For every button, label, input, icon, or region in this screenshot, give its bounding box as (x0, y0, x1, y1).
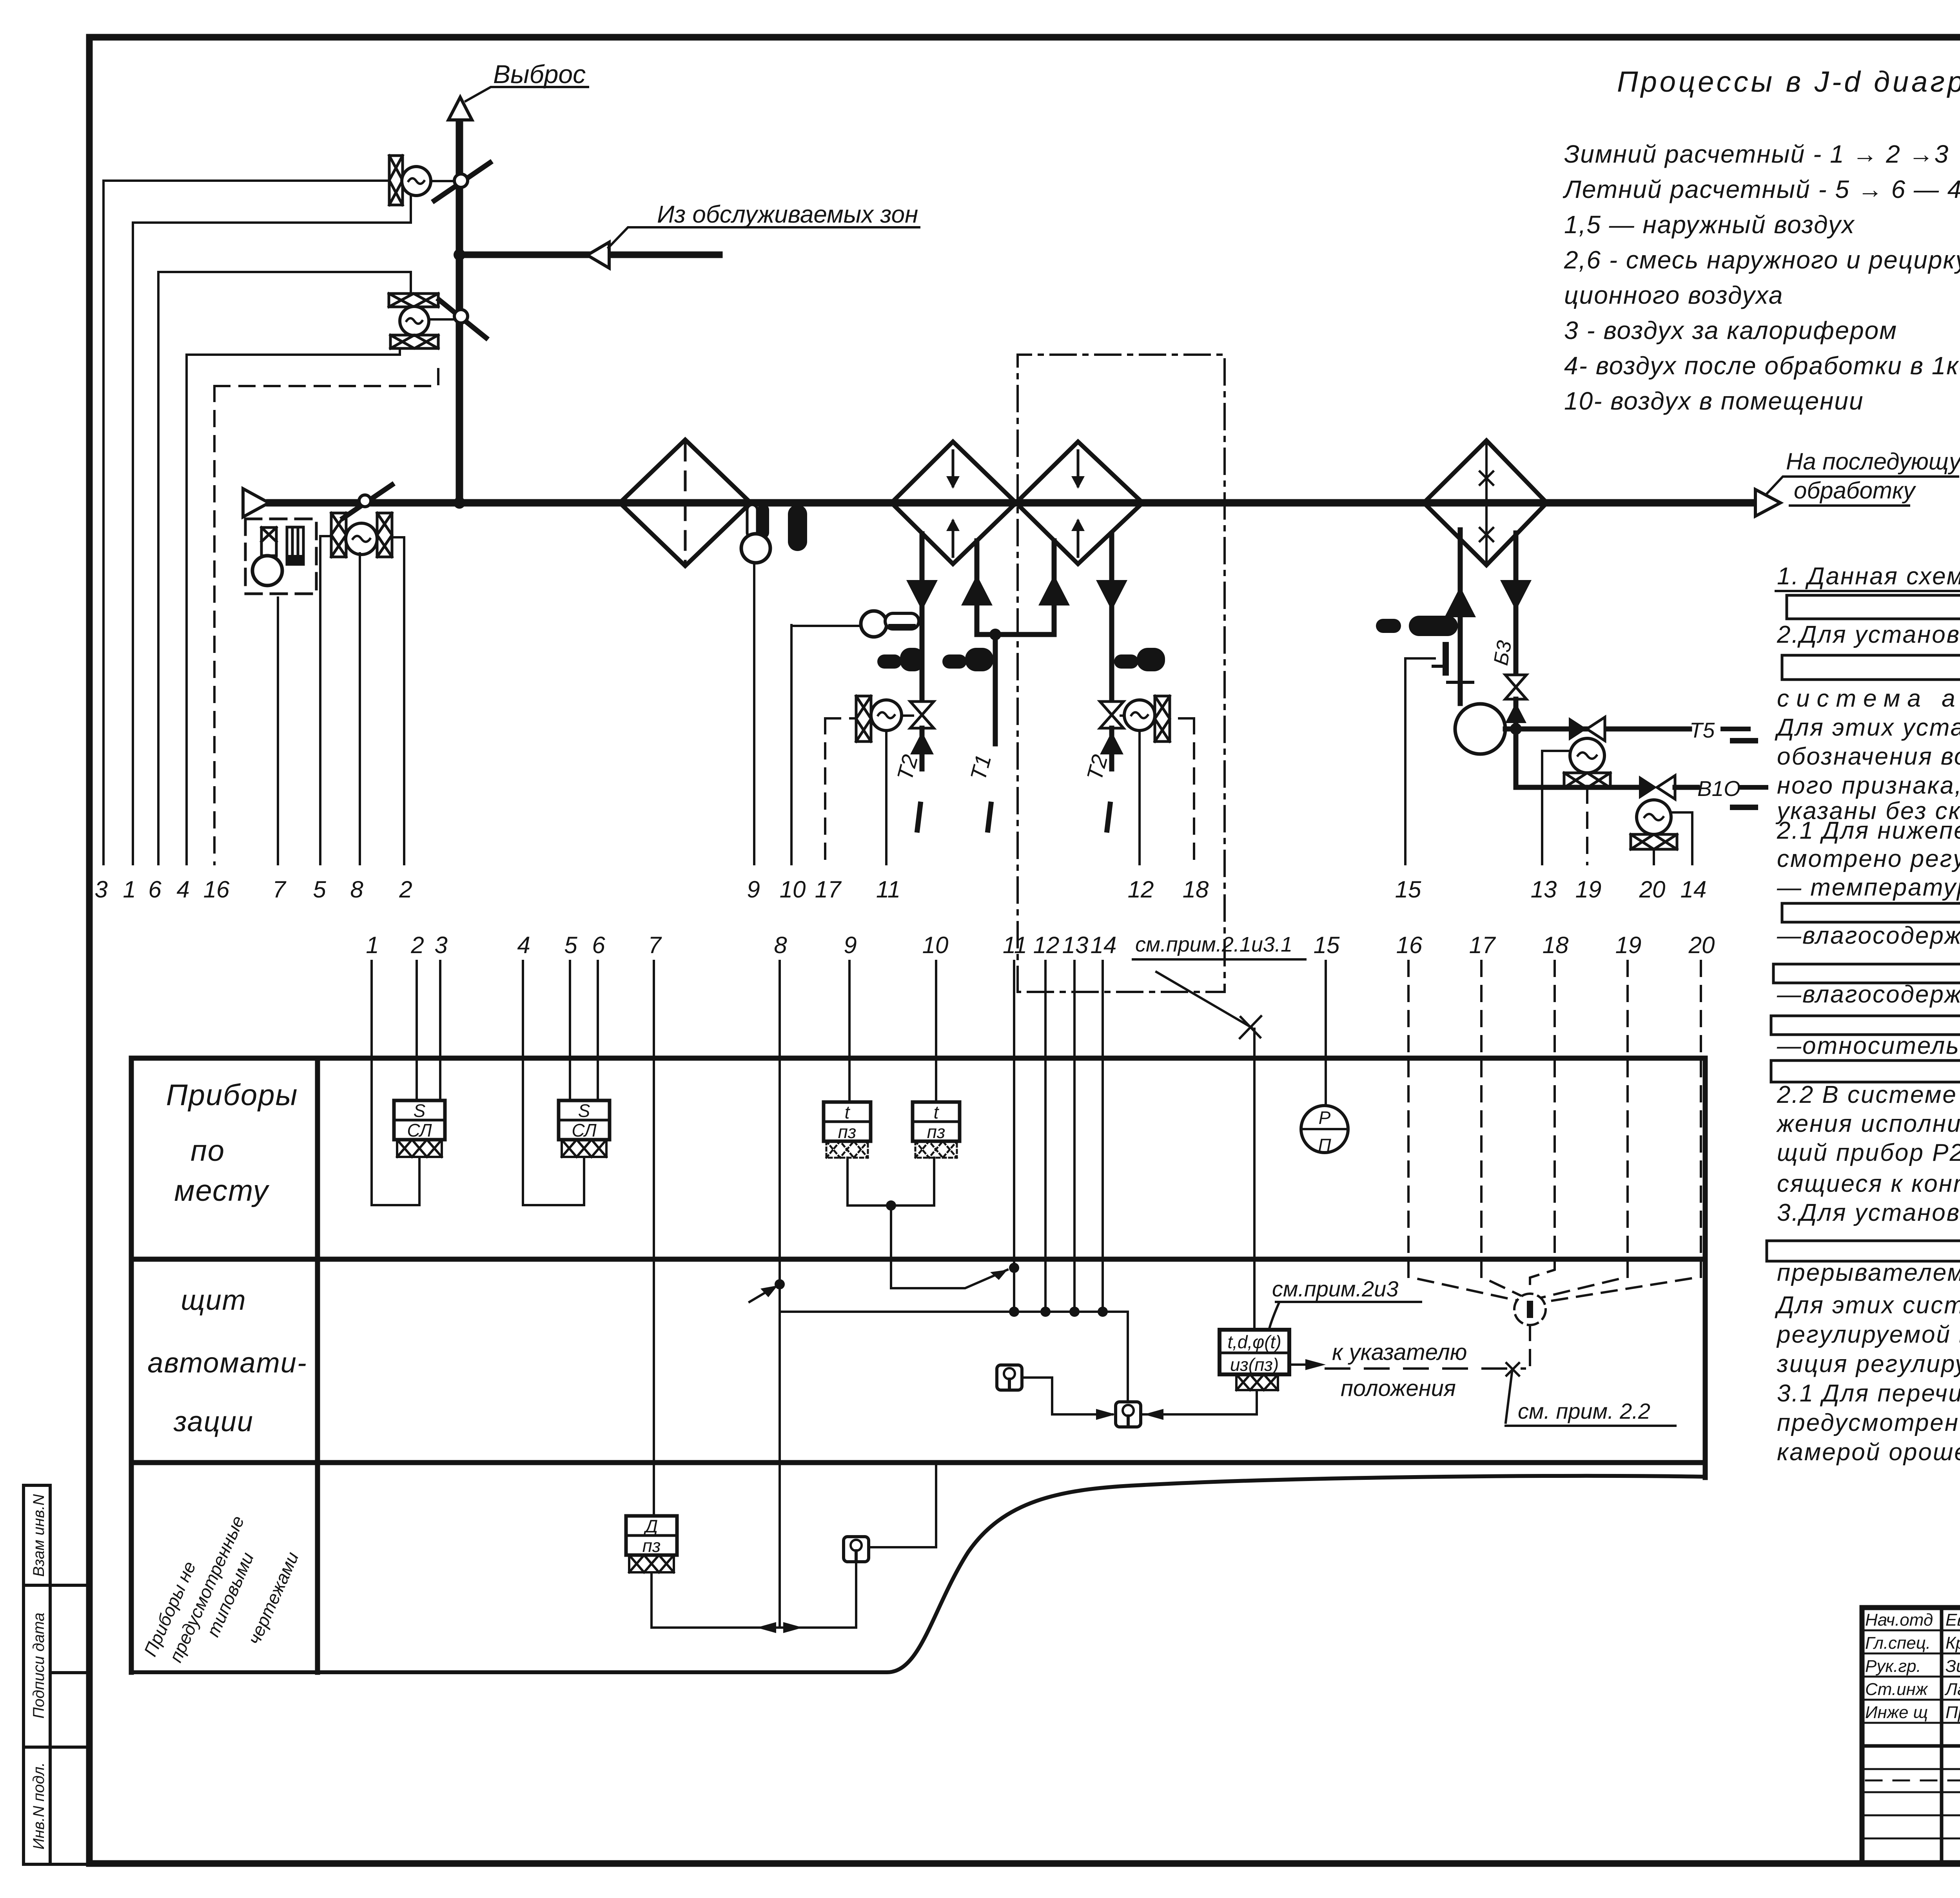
thermometer T9 tube outline (747, 505, 757, 538)
redaction box row3 (1771, 1016, 1960, 1035)
pipe A2 return (975, 541, 980, 634)
svg-text:6: 6 (148, 876, 162, 903)
wire leader 10 (790, 625, 793, 864)
leader 20 dashed (1653, 849, 1655, 864)
svg-text:Т2: Т2 (1082, 752, 1112, 783)
svg-text:СЛ: СЛ (572, 1120, 597, 1140)
svg-text:обозначения возможных регули: обозначения возможных регулируемых велич… (1777, 743, 1960, 770)
svg-text:—относительной влажности в о: —относительной влажности в обслуживаемой… (1777, 1032, 1960, 1059)
wire line 17 dashed (1481, 961, 1523, 1296)
svg-text:10- воздух в помещении: 10- воздух в помещении (1564, 387, 1864, 415)
pipe A3 return (1109, 534, 1114, 705)
pipe A3 supply (1052, 541, 1057, 634)
svg-text:10: 10 (922, 932, 949, 958)
svg-text:4: 4 (176, 876, 189, 903)
svg-text:Р: Р (1319, 1108, 1331, 1128)
svg-text:— температуры воздуха за кам: — температуры воздуха за камерой орошени… (1777, 874, 1960, 901)
svg-text:Кростошевский: Кростошевский (1945, 1633, 1960, 1653)
node pump junction (1510, 723, 1522, 735)
wire leader 5 elbow (320, 536, 331, 864)
svg-text:t: t (845, 1102, 851, 1122)
actuator M-B10 crossbox (1631, 834, 1677, 849)
svg-text:18: 18 (1183, 876, 1209, 903)
wire to leader 6 (158, 272, 411, 294)
wire to leader 10 (791, 625, 861, 627)
svg-text:см.прим.2.1и3.1: см.прим.2.1и3.1 (1135, 933, 1292, 956)
note underline 1 (1776, 590, 1960, 592)
exhaust duct vertical (456, 120, 463, 503)
svg-text:16: 16 (1396, 932, 1423, 958)
wire to leader 4 (187, 348, 400, 355)
left stamp column labels (30, 1494, 47, 1850)
regulator labels (1227, 1332, 1281, 1375)
bus in panel row (775, 1279, 785, 1289)
svg-text:t,d,φ(t): t,d,φ(t) (1227, 1332, 1281, 1352)
svg-text:На последующую: На последующую (1786, 448, 1960, 475)
svg-text:автомати-: автомати- (147, 1347, 307, 1379)
leader 18 dashed (1170, 718, 1194, 864)
svg-text:19: 19 (1615, 932, 1642, 958)
wire leader 13 (1541, 751, 1543, 864)
svg-text:—влагосодержания за камерой: —влагосодержания за камерой орошения , у… (1777, 922, 1960, 949)
recirculation inlet wire (459, 252, 719, 258)
svg-text:обработку: обработку (1794, 477, 1916, 504)
svg-text:6: 6 (592, 932, 605, 958)
svg-text:3.1 Для перечисленных в п: 3.1 Для перечисленных в пункте 3 систем … (1777, 1380, 1960, 1407)
fan F1 motor circle (346, 523, 377, 555)
svg-text:11: 11 (1003, 932, 1027, 958)
wire S3 right (869, 1466, 936, 1547)
svg-text:предусмотрено регулирование: предусмотрено регулирование температуры … (1777, 1409, 1960, 1436)
wire line 9 (848, 961, 851, 1102)
heater A3 spray arrows (1077, 451, 1080, 557)
svg-text:Рук.гр.: Рук.гр. (1865, 1657, 1921, 1676)
pipe T5 (1516, 727, 1690, 732)
svg-text:камерой орошения. Позиция д: камерой орошения. Позиция датчика (1777, 1439, 1960, 1466)
sensor bulbs filled (900, 648, 924, 671)
svg-text:по: по (191, 1134, 225, 1167)
label leader (1766, 477, 1958, 495)
air intake arrow (243, 489, 269, 517)
pump circle (1455, 704, 1505, 754)
svg-text:15: 15 (1395, 876, 1421, 903)
label Выброс leader (466, 87, 588, 101)
wire leader 1 (132, 223, 134, 864)
legend lines (1563, 140, 1960, 415)
svg-text:5: 5 (313, 876, 326, 903)
svg-text:ного признака, а также позиц: ного признака, а также позиция регулирую… (1777, 772, 1960, 799)
pipe T1 header (977, 634, 1054, 744)
wire line 18 dashed (1530, 961, 1555, 1294)
svg-text:регулируемой величины и фун: регулируемой величины и функционального … (1776, 1321, 1960, 1348)
filter A1 center dashed (684, 442, 687, 564)
damper D-ex1 slash (434, 163, 490, 201)
svg-text:жения исполнительных механиз: жения исполнительных механизмов по встро… (1776, 1110, 1960, 1137)
svg-text:Выброс: Выброс (493, 60, 586, 89)
title block frame (1862, 1608, 1960, 1864)
sensor bulb filled (1409, 616, 1458, 636)
actuator square S2 (1116, 1402, 1141, 1427)
node duct junction (454, 497, 465, 509)
svg-text:S: S (414, 1100, 426, 1121)
sensor element filled (287, 527, 303, 564)
leader numbers row1 (94, 876, 1706, 903)
control valve V1 bowtie (910, 702, 934, 728)
svg-text:4: 4 (517, 932, 530, 958)
instrument D/pz box row3 (626, 1516, 677, 1555)
svg-text:см. прим. 2.2: см. прим. 2.2 (1518, 1399, 1650, 1423)
wire line 2 (416, 961, 418, 1100)
gauge P1 circle (252, 556, 282, 586)
svg-text:Т1: Т1 (965, 752, 996, 783)
svg-text:2: 2 (410, 932, 424, 958)
fan F1 crossed box left (331, 513, 346, 557)
intake damper slash (343, 485, 392, 518)
svg-text:Т5: Т5 (1690, 718, 1715, 742)
svg-text:Лазаренко: Лазаренко (1944, 1680, 1960, 1699)
svg-text:см.прим.2и3: см.прим.2и3 (1272, 1276, 1398, 1301)
inlet arrow from served zones (587, 242, 609, 268)
wire line 3 (439, 961, 441, 1100)
heater A2 spray arrows (952, 451, 955, 557)
pipe A2 supply (920, 534, 925, 705)
actuator square S3 (844, 1537, 869, 1562)
svg-text:15: 15 (1314, 932, 1340, 958)
svg-text:2,6 - смесь наружного и рецирк: 2,6 - смесь наружного и рециркуля- (1564, 246, 1960, 274)
svg-text:из(пз): из(пз) (1230, 1354, 1279, 1375)
svg-text:пз: пз (838, 1122, 857, 1142)
sensor bulb filled (788, 505, 807, 551)
leader 17 dashed (825, 718, 856, 864)
left stamp column (24, 1485, 89, 1864)
valve B3 bowtie (1505, 675, 1526, 699)
wire line 1 to box (372, 961, 419, 1205)
filter diamond A1 (620, 440, 751, 566)
actuator M-T5 crossbox (1564, 773, 1610, 788)
regulator output arrow (1289, 1363, 1305, 1366)
wire line 15 (1325, 961, 1327, 1106)
heater diamond A2 (891, 442, 1016, 564)
svg-text:1: 1 (366, 932, 379, 958)
redaction box A (1787, 595, 1960, 619)
wire line 5 (569, 961, 571, 1100)
svg-text:В1О: В1О (1697, 776, 1740, 801)
regulator box (1220, 1330, 1289, 1374)
fan actuator M1 motor circle (402, 167, 431, 196)
valve arrow down (906, 580, 938, 611)
svg-text:смотрено регулирование следу: смотрено регулирование следующих парамет… (1777, 845, 1960, 872)
svg-text:Из обслуживаемых зон: Из обслуживаемых зон (657, 201, 918, 228)
svg-text:зиция регулирующего прибора: зиция регулирующего прибора указаны в ск… (1777, 1351, 1960, 1378)
outlet arrow to processing (1755, 489, 1780, 516)
svg-text:Взам инв.N: Взам инв.N (30, 1494, 47, 1577)
svg-text:1: 1 (123, 876, 136, 903)
wire to leader 1 (133, 196, 411, 223)
gauge R/P circle (1301, 1106, 1348, 1153)
svg-text:13: 13 (1531, 876, 1557, 903)
redaction box row2 (1773, 964, 1960, 983)
actuator cluster right motor (1121, 714, 1132, 717)
actuator M2 crossed box lower (390, 335, 438, 348)
svg-text:СЛ: СЛ (407, 1120, 432, 1140)
row label Щит автоматизации (147, 1285, 307, 1438)
svg-text:3: 3 (94, 876, 107, 903)
wire leader 6 (157, 272, 160, 864)
instrument t/pz box3 (824, 1102, 871, 1141)
svg-text:Д: Д (643, 1516, 658, 1536)
svg-text:19: 19 (1575, 876, 1602, 903)
instrument letters row3 (642, 1516, 661, 1556)
svg-text:8: 8 (774, 932, 787, 958)
svg-text:7: 7 (272, 876, 287, 903)
table frame (131, 1056, 1705, 1061)
wire leader 2 elbow (392, 537, 404, 864)
exhaust outlet arrow (448, 97, 472, 120)
svg-text:3: 3 (434, 932, 447, 958)
actuator M2 crossed box upper (389, 294, 438, 307)
svg-text:прерывателем— система автома: прерывателем— система автоматизации 2 кл… (1777, 1259, 1960, 1286)
wire line 4 to box (523, 961, 584, 1205)
wire line 11 (1013, 961, 1015, 1312)
svg-text:П: П (1318, 1135, 1331, 1155)
redaction box row4 (1771, 1060, 1960, 1082)
A4 center line with x marks (1485, 443, 1488, 563)
sensor element hatched (261, 528, 276, 556)
wire line 19 dashed (1540, 961, 1628, 1298)
svg-text:Летний расчетный - 5 → 6 — 4: Летний расчетный - 5 → 6 — 4 (1563, 175, 1960, 203)
node junction exhaust/recirc (454, 249, 465, 261)
svg-text:3 - воздух за калорифером: 3 - воздух за калорифером (1564, 316, 1897, 344)
svg-text:пз: пз (642, 1535, 661, 1556)
svg-text:12: 12 (1033, 932, 1060, 958)
unnumbered wire to regulator (1253, 1029, 1256, 1330)
wire line 13 (1073, 961, 1076, 1312)
dashed row (1866, 1780, 1960, 1782)
svg-text:1,5 — наружный воздух: 1,5 — наружный воздух (1564, 210, 1855, 239)
actuator M-B10 motor (1637, 800, 1671, 834)
wires t boxes to bus (848, 1158, 934, 1206)
wire 7 long (653, 961, 655, 1516)
wire leader 15 (1404, 658, 1406, 864)
leader numbers row2 (366, 932, 1715, 958)
leader diagonal to unnumbered wire (1156, 972, 1252, 1028)
svg-text:Гл.спец.: Гл.спец. (1865, 1633, 1931, 1653)
wire to leader 13 (1542, 751, 1570, 862)
svg-text:9: 9 (844, 932, 857, 958)
damper D-ex2 pivot (454, 310, 468, 323)
svg-text:Прошенина: Прошенина (1945, 1703, 1960, 1722)
pipe to T2 (920, 728, 925, 769)
wire leader 12 (1138, 731, 1141, 864)
intake damper pivot (359, 495, 371, 507)
svg-text:Зимний расчетный - 1 → 2 →3 →4: Зимний расчетный - 1 → 2 →3 →4 (1564, 140, 1960, 168)
svg-text:12: 12 (1128, 876, 1154, 903)
svg-text:2.2 В системе автоматизации: 2.2 В системе автоматизации 1 класса пре… (1777, 1081, 1960, 1108)
damper D-ex2 slash (439, 300, 486, 338)
instrument t/pz box4 (913, 1102, 960, 1141)
wire to leader 15 (1405, 658, 1435, 862)
svg-text:сящиеся к контролю положени: сящиеся к контролю положения , показаны … (1777, 1170, 1960, 1197)
redaction box C (1782, 655, 1960, 680)
wire leader 9 (753, 563, 755, 864)
svg-text:система автоматизации 1 клас: система автоматизации 1 класса . (1777, 685, 1960, 712)
svg-text:11: 11 (876, 876, 900, 903)
svg-text:2: 2 (399, 876, 412, 903)
leader wire 16 dashed (213, 386, 216, 864)
spray chamber diamond A4 (1424, 441, 1547, 565)
fan actuator M1 crossed box (389, 156, 403, 205)
actuator cluster right crossbox (1155, 696, 1170, 741)
svg-text:Т2: Т2 (892, 752, 923, 783)
valve B10 bowtie (1639, 776, 1657, 799)
wire S2 to regulator (1141, 1391, 1257, 1414)
svg-text:к указателю: к указателю (1332, 1340, 1467, 1365)
thermometer T10 circle (861, 611, 887, 637)
svg-text:Для этих установок в услов: Для этих установок в условном изображени… (1775, 714, 1960, 741)
damper D-ex1 pivot (454, 174, 468, 187)
svg-text:щит: щит (181, 1285, 246, 1316)
svg-text:13: 13 (1062, 932, 1089, 958)
signature columns (1942, 1608, 1960, 1864)
svg-text:20: 20 (1688, 932, 1715, 958)
wire S1 to S2 (1022, 1378, 1112, 1414)
wire leader 11 (885, 731, 887, 864)
margin ticks (1733, 741, 1755, 807)
svg-text:9: 9 (747, 876, 760, 903)
wire line 10 (935, 961, 937, 1102)
svg-text:ционного воздуха: ционного воздуха (1564, 281, 1783, 309)
svg-text:щий прибор Р25.1.2 индикато: щий прибор Р25.1.2 индикатору. На схеме … (1777, 1139, 1960, 1166)
svg-text:положения: положения (1341, 1376, 1456, 1401)
wire leader 3 (102, 181, 105, 864)
redaction box 3.x b (1767, 1241, 1960, 1261)
svg-text:18: 18 (1543, 932, 1569, 958)
pipe B10 (1516, 729, 1642, 787)
wire leader 8 stem (359, 553, 361, 864)
actuator M-T5 motor (1570, 738, 1604, 773)
actuator square S1 (997, 1365, 1022, 1390)
control valve V2 bowtie (1100, 702, 1123, 728)
svg-text:месту: месту (174, 1174, 269, 1207)
actuator cluster left motor (871, 700, 902, 731)
svg-text:Приборы: Приборы (166, 1079, 298, 1112)
dashed instrument enclosure (245, 519, 316, 594)
wire line 12 (1044, 961, 1047, 1312)
svg-text:2.1 Для нижеперечисленных ус: 2.1 Для нижеперечисленных установок конд… (1777, 817, 1960, 844)
svg-text:Евтушенко: Евтушенко (1945, 1610, 1960, 1630)
svg-text:Б3: Б3 (1490, 639, 1516, 667)
wire to leader 14 (1671, 812, 1692, 862)
probe T15 (1443, 645, 1449, 673)
svg-text:S: S (578, 1100, 590, 1121)
wire leader 14 (1691, 812, 1693, 864)
svg-text:10: 10 (780, 876, 806, 903)
svg-text:7: 7 (648, 932, 662, 958)
table bottom with curve (131, 1476, 1705, 1672)
svg-text:зации: зации (173, 1406, 254, 1438)
thermometer T10 tail (885, 613, 919, 629)
actuator M2 motor circle (400, 306, 429, 335)
wire box to actuator S3 (652, 1562, 856, 1628)
dashed wire to leader 16 (214, 364, 438, 386)
actuator cluster left crossbox (856, 696, 871, 741)
svg-text:2.Для установок кондициониро: 2.Для установок кондиционирования (1777, 621, 1960, 648)
leader 19 dashed (1586, 788, 1588, 864)
svg-text:5: 5 (564, 932, 577, 958)
svg-text:Ст.инж: Ст.инж (1865, 1680, 1928, 1699)
wire line 20 dashed (1544, 961, 1701, 1302)
svg-text:1. Данная схема применена д: 1. Данная схема применена для следующих … (1777, 563, 1960, 590)
svg-text:16: 16 (203, 876, 230, 903)
svg-text:Для этих систем в условном: Для этих систем в условном изображении р… (1775, 1292, 1960, 1319)
svg-text:3.Для установок кондициониро: 3.Для установок кондиционирования (1777, 1199, 1960, 1226)
fan F1 crossed box right (377, 513, 392, 557)
signature rows (1862, 1630, 1960, 1838)
spray pump supply pipe (1458, 530, 1463, 703)
instrument S/SL box1 (394, 1100, 445, 1140)
row label Приборы по месту (166, 1079, 298, 1207)
svg-text:20: 20 (1639, 876, 1666, 903)
row label rotated Приборы не предусмотренные (140, 1513, 303, 1665)
thermometer T9 tube filled (757, 504, 769, 538)
wire leader 7 (277, 598, 279, 864)
wire line 16 dashed (1408, 961, 1517, 1300)
svg-text:14: 14 (1681, 876, 1707, 903)
svg-text:Зингерман: Зингерман (1945, 1657, 1960, 1676)
redaction box row1 (1782, 903, 1960, 922)
main air duct (270, 499, 1755, 507)
svg-text:8: 8 (350, 876, 363, 903)
svg-text:14: 14 (1091, 932, 1117, 958)
wire line 6 (597, 961, 599, 1100)
wire 8 long (779, 961, 781, 1628)
heater diamond A3 (1016, 442, 1143, 564)
svg-text:Инже щ: Инже щ (1865, 1703, 1928, 1722)
wire to leader 3 (103, 179, 389, 182)
svg-text:Подписи дата: Подписи дата (30, 1613, 47, 1719)
svg-text:пз: пз (927, 1122, 946, 1142)
svg-text:Инв.N подл.: Инв.N подл. (30, 1762, 47, 1850)
spray return pipe B3 (1514, 533, 1519, 673)
dashed wires 16-20 (1408, 961, 1701, 1302)
valve T5 bowtie (1569, 717, 1587, 741)
svg-text:17: 17 (815, 876, 842, 903)
instrument S/SL box2 (559, 1100, 610, 1140)
svg-text:—влагосодержания в обслуживае: —влагосодержания в обслуживаемой зоне, у… (1777, 981, 1960, 1008)
svg-text:4- воздух после обработки в 1к: 4- воздух после обработки в 1контуре (1564, 352, 1960, 380)
pump outlet wire (1505, 727, 1516, 732)
signature roles (1865, 1610, 1960, 1722)
wire line 14 (1102, 961, 1104, 1312)
svg-text:Процессы в Ј-d диаграмме: Процессы в Ј-d диаграмме (1617, 65, 1960, 98)
wire leader 4 (185, 355, 188, 864)
dash-dot enclosure (1018, 355, 1225, 992)
svg-text:t: t (934, 1102, 940, 1122)
thermometer T9 bulb circle (741, 534, 770, 563)
svg-text:Нач.отд: Нач.отд (1865, 1610, 1933, 1630)
position indicator dashed circle (1506, 1294, 1546, 1423)
svg-text:17: 17 (1469, 932, 1496, 958)
